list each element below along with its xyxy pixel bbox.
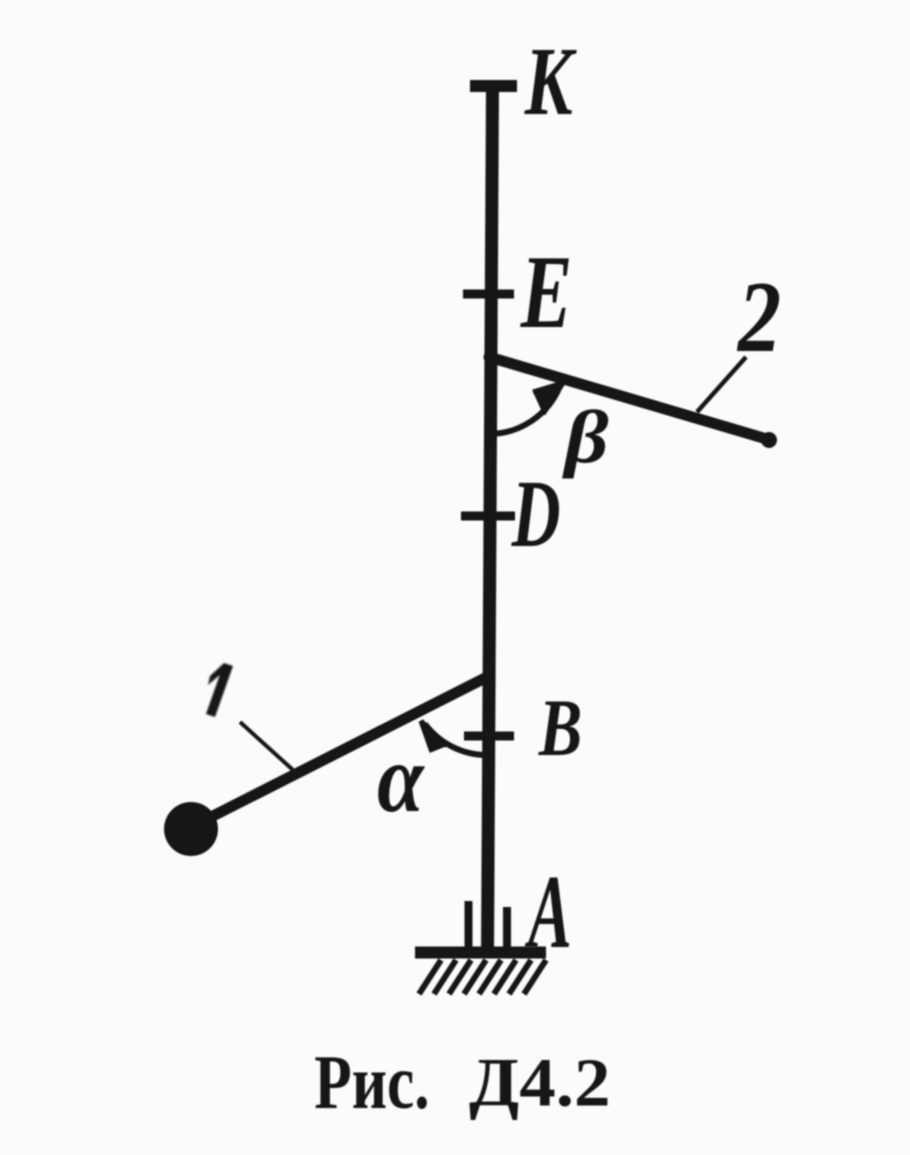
svg-text:Рис.: Рис. bbox=[314, 1040, 429, 1125]
svg-text:β: β bbox=[562, 397, 609, 480]
svg-text:2: 2 bbox=[736, 262, 781, 374]
svg-text:B: B bbox=[538, 682, 582, 772]
svg-text:D: D bbox=[511, 461, 561, 568]
svg-text:A: A bbox=[525, 853, 572, 969]
svg-text:α: α bbox=[377, 724, 425, 832]
svg-text:E: E bbox=[520, 234, 572, 350]
svg-text:K: K bbox=[524, 29, 577, 136]
svg-text:Д4.2: Д4.2 bbox=[469, 1045, 610, 1121]
